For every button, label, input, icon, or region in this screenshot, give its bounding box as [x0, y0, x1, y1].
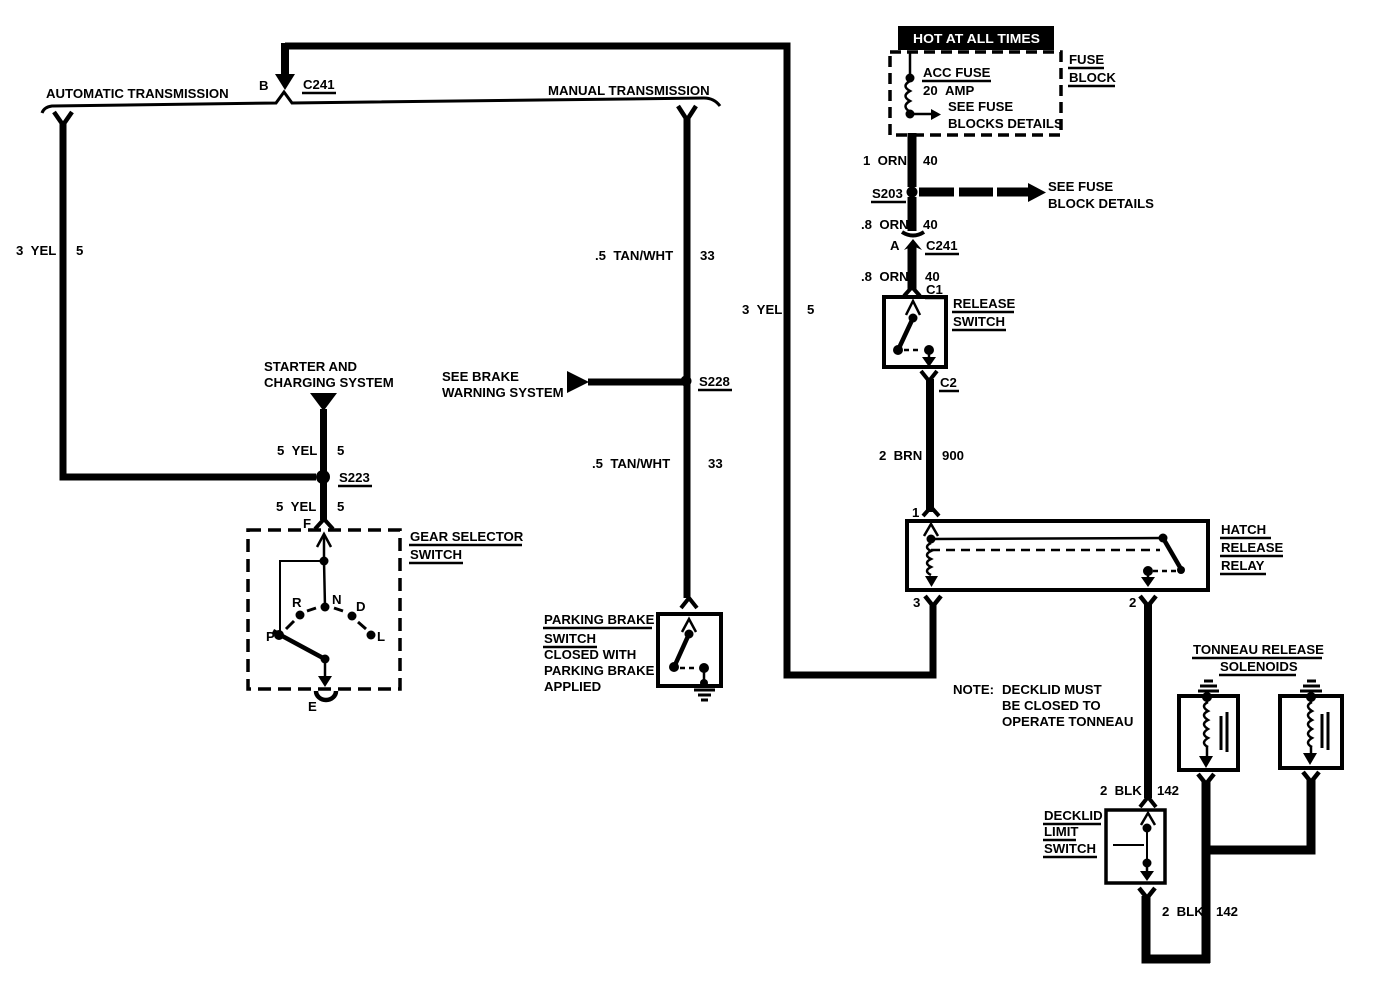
svg-text:R: R	[292, 595, 302, 610]
svg-text:E: E	[308, 699, 317, 714]
svg-text:CLOSED WITH: CLOSED WITH	[544, 647, 636, 662]
svg-text:3 YEL: 3 YEL	[16, 243, 56, 258]
svg-text:BE CLOSED TO: BE CLOSED TO	[1002, 698, 1101, 713]
svg-text:5: 5	[76, 243, 83, 258]
svg-text:SOLENOIDS: SOLENOIDS	[1220, 659, 1298, 674]
svg-text:FUSE: FUSE	[1069, 52, 1104, 67]
svg-text:B: B	[259, 78, 269, 93]
svg-text:C2: C2	[940, 375, 957, 390]
svg-text:S203: S203	[872, 186, 903, 201]
svg-text:N: N	[332, 592, 342, 607]
svg-text:33: 33	[700, 248, 715, 263]
svg-text:.8 ORN: .8 ORN	[861, 269, 909, 284]
svg-text:142: 142	[1216, 904, 1238, 919]
svg-text:S223: S223	[339, 470, 370, 485]
svg-text:A: A	[890, 238, 900, 253]
svg-text:PARKING BRAKE: PARKING BRAKE	[544, 663, 655, 678]
svg-text:5: 5	[337, 499, 344, 514]
svg-text:3 YEL: 3 YEL	[742, 302, 782, 317]
svg-text:DECKLID: DECKLID	[1044, 808, 1103, 823]
svg-text:STARTER AND: STARTER AND	[264, 359, 357, 374]
svg-text:SEE FUSE: SEE FUSE	[1048, 179, 1113, 194]
svg-text:NOTE:: NOTE:	[953, 682, 994, 697]
svg-text:WARNING SYSTEM: WARNING SYSTEM	[442, 385, 564, 400]
svg-text:RELEASE: RELEASE	[953, 296, 1015, 311]
svg-text:S228: S228	[699, 374, 730, 389]
svg-text:20 AMP: 20 AMP	[923, 83, 975, 98]
svg-text:C241: C241	[926, 238, 958, 253]
svg-text:1: 1	[912, 505, 919, 520]
svg-text:AUTOMATIC TRANSMISSION: AUTOMATIC TRANSMISSION	[46, 86, 229, 101]
svg-text:BLOCK DETAILS: BLOCK DETAILS	[1048, 196, 1154, 211]
svg-text:BLOCK: BLOCK	[1069, 70, 1116, 85]
svg-text:SWITCH: SWITCH	[544, 631, 596, 646]
svg-text:900: 900	[942, 448, 964, 463]
svg-text:2 BRN: 2 BRN	[879, 448, 922, 463]
svg-text:SWITCH: SWITCH	[953, 314, 1005, 329]
svg-text:HATCH: HATCH	[1221, 522, 1266, 537]
svg-text:SWITCH: SWITCH	[410, 547, 462, 562]
svg-text:BLOCKS DETAILS: BLOCKS DETAILS	[948, 116, 1063, 131]
svg-text:OPERATE TONNEAU: OPERATE TONNEAU	[1002, 714, 1133, 729]
svg-text:PARKING BRAKE: PARKING BRAKE	[544, 612, 655, 627]
svg-text:D: D	[356, 599, 366, 614]
svg-text:33: 33	[708, 456, 723, 471]
svg-text:APPLIED: APPLIED	[544, 679, 601, 694]
svg-text:.8 ORN: .8 ORN	[861, 217, 909, 232]
svg-text:142: 142	[1157, 783, 1179, 798]
svg-text:MANUAL TRANSMISSION: MANUAL TRANSMISSION	[548, 83, 710, 98]
svg-text:.5 TAN/WHT: .5 TAN/WHT	[592, 456, 670, 471]
svg-text:RELAY: RELAY	[1221, 558, 1265, 573]
svg-text:5 YEL: 5 YEL	[276, 499, 316, 514]
svg-text:5 YEL: 5 YEL	[277, 443, 317, 458]
svg-text:P: P	[266, 629, 275, 644]
svg-text:DECKLID MUST: DECKLID MUST	[1002, 682, 1102, 697]
svg-text:ACC FUSE: ACC FUSE	[923, 65, 991, 80]
svg-text:HOT AT ALL TIMES: HOT AT ALL TIMES	[913, 31, 1040, 46]
svg-text:CHARGING SYSTEM: CHARGING SYSTEM	[264, 375, 394, 390]
svg-text:5: 5	[337, 443, 344, 458]
svg-text:3: 3	[913, 595, 920, 610]
svg-text:SEE BRAKE: SEE BRAKE	[442, 369, 519, 384]
svg-text:GEAR SELECTOR: GEAR SELECTOR	[410, 529, 524, 544]
svg-text:L: L	[377, 629, 385, 644]
svg-text:LIMIT: LIMIT	[1044, 824, 1078, 839]
svg-text:.5 TAN/WHT: .5 TAN/WHT	[595, 248, 673, 263]
svg-text:SWITCH: SWITCH	[1044, 841, 1096, 856]
svg-text:C241: C241	[303, 77, 335, 92]
svg-text:2: 2	[1129, 595, 1136, 610]
svg-text:RELEASE: RELEASE	[1221, 540, 1283, 555]
svg-text:TONNEAU RELEASE: TONNEAU RELEASE	[1193, 642, 1324, 657]
svg-text:2 BLK: 2 BLK	[1100, 783, 1142, 798]
svg-text:40: 40	[923, 217, 938, 232]
svg-text:5: 5	[807, 302, 814, 317]
svg-text:1 ORN: 1 ORN	[863, 153, 907, 168]
svg-text:C1: C1	[926, 282, 943, 297]
svg-text:SEE FUSE: SEE FUSE	[948, 99, 1013, 114]
svg-text:40: 40	[923, 153, 938, 168]
svg-text:2 BLK: 2 BLK	[1162, 904, 1204, 919]
